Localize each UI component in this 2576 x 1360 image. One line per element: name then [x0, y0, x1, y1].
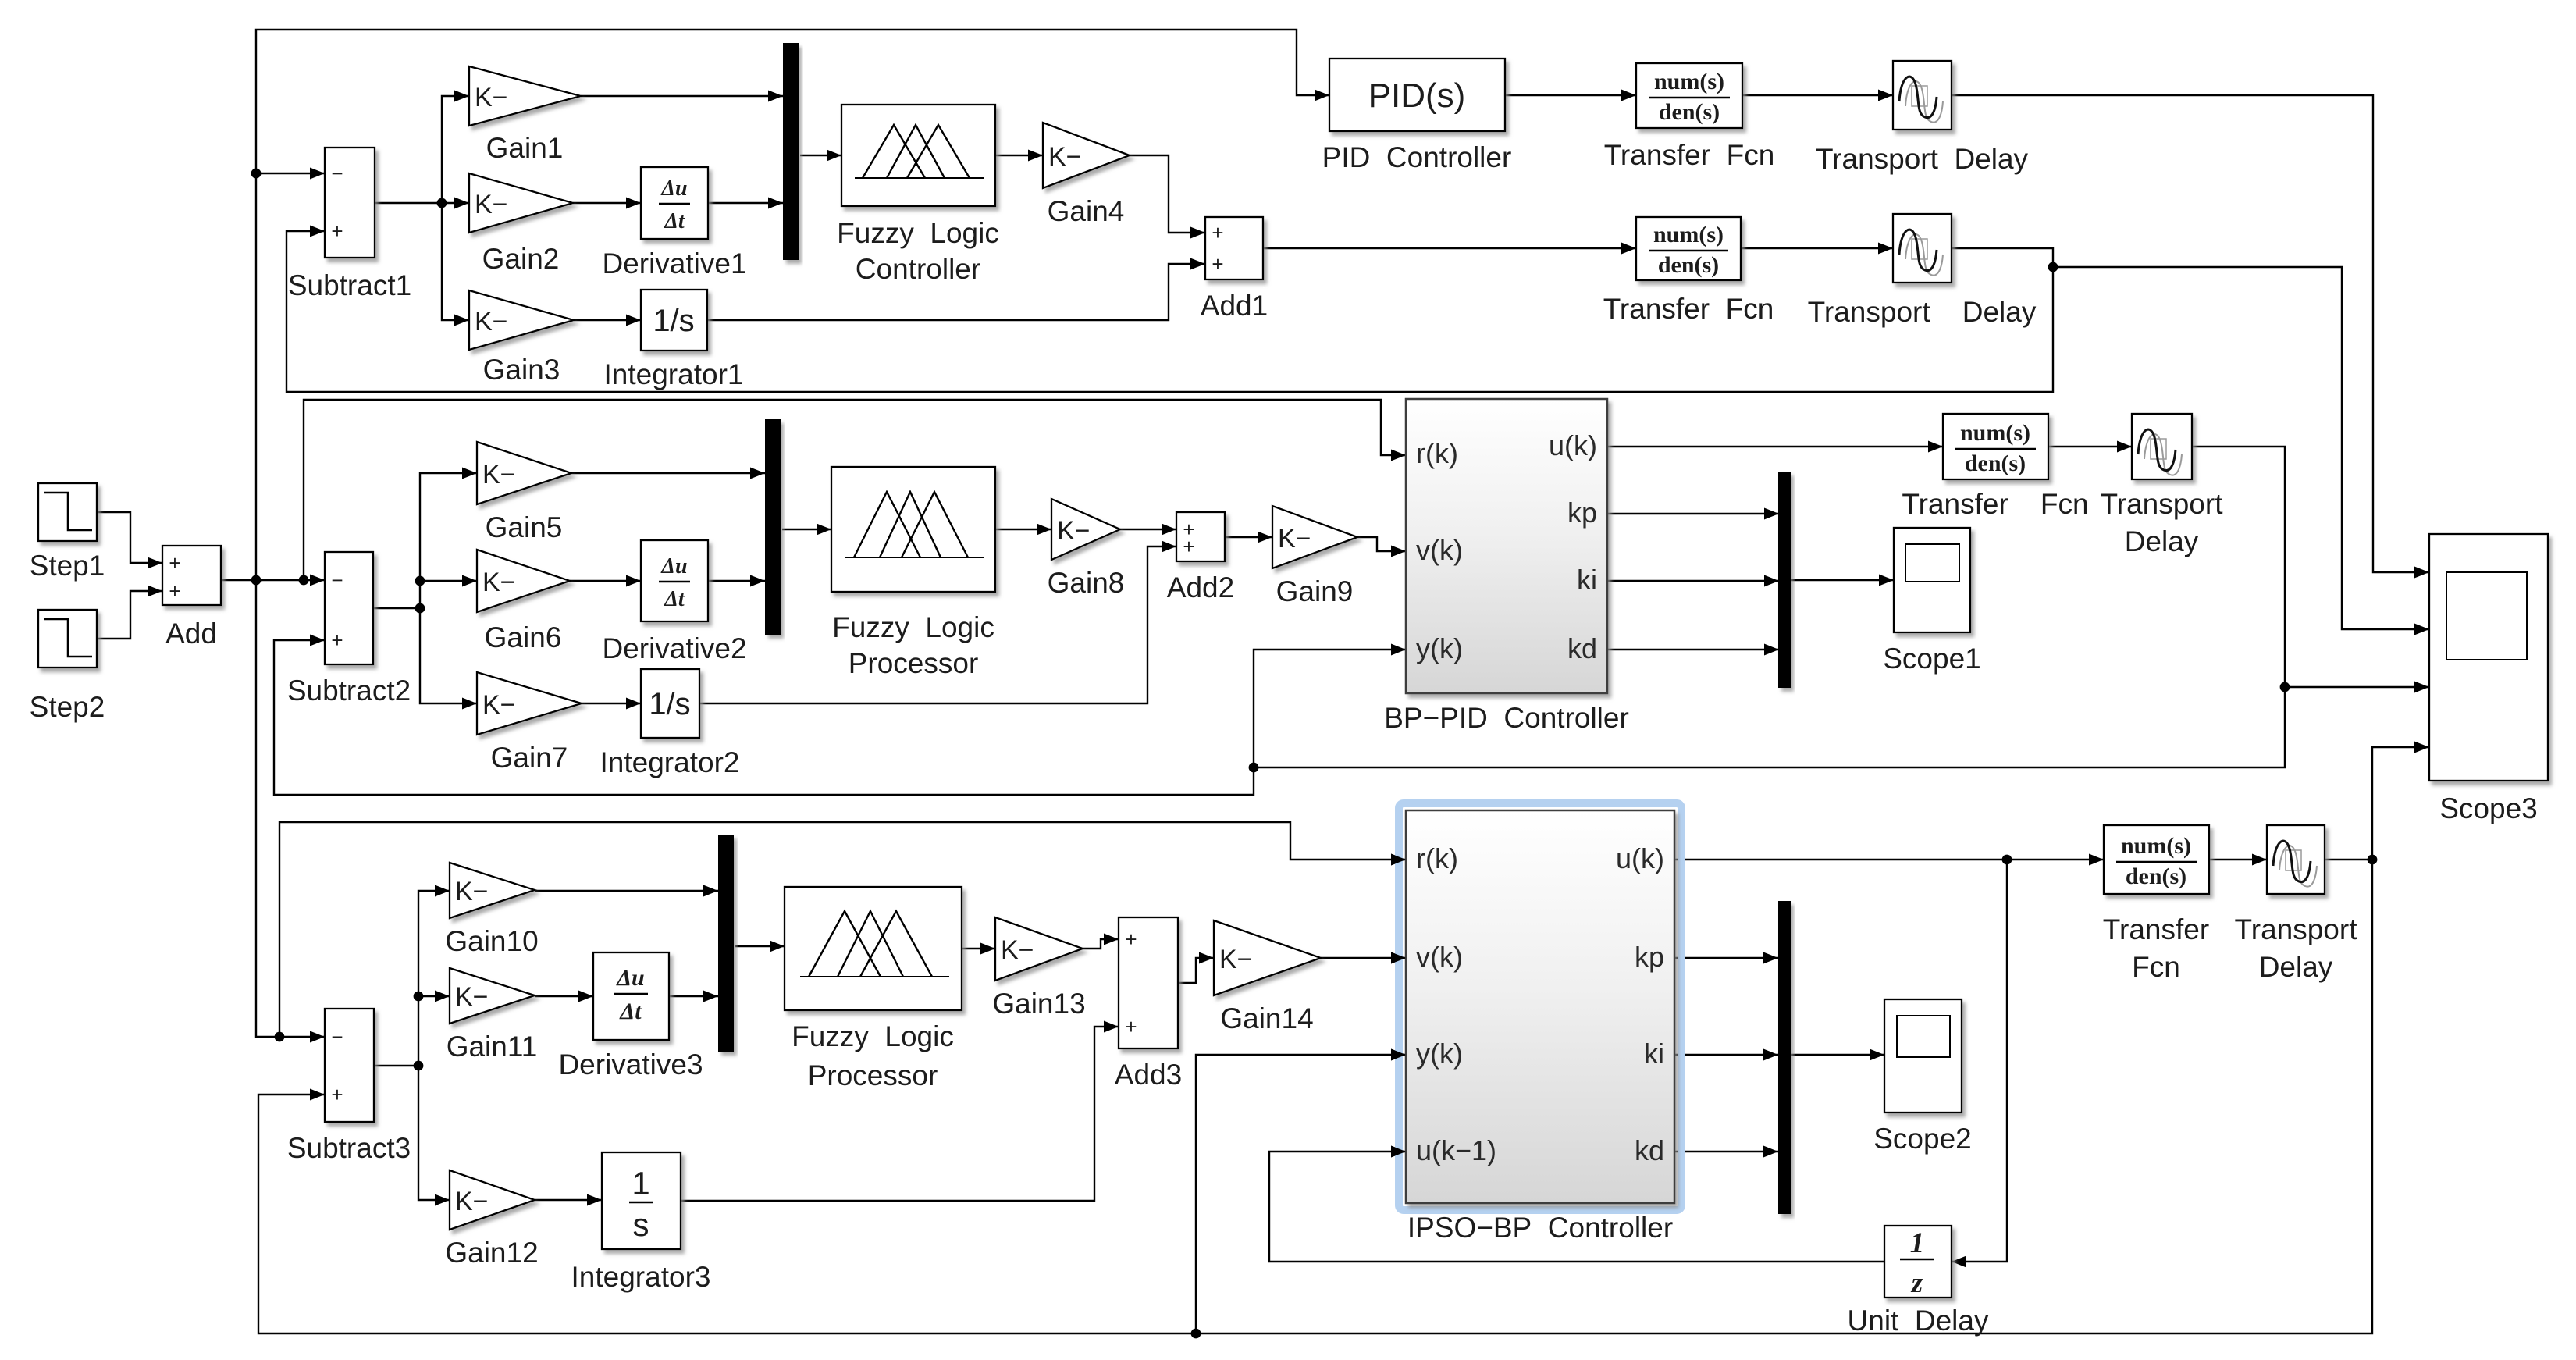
svg-text:+: + [1125, 1015, 1137, 1038]
svg-text:Delay: Delay [2125, 525, 2199, 557]
svg-text:Fuzzy Logic: Fuzzy Logic [832, 611, 994, 643]
svg-text:Delay: Delay [2259, 951, 2333, 983]
svg-text:u(k): u(k) [1549, 429, 1597, 461]
transport delay block Transport Delay1 [1816, 61, 2029, 175]
mux block Mux1 [783, 43, 799, 260]
wire: u(k) branch down to Unit Delay input [1952, 860, 2007, 1268]
gain block Gain3 [469, 290, 574, 386]
sum block Subtract3 [287, 1009, 411, 1164]
wire: branch up to Scope3 input4 [2372, 742, 2429, 860]
pid block PID Controller [1322, 59, 1512, 173]
svg-text:kd: kd [1635, 1134, 1664, 1166]
wire: Gain1 output to Mux1 [581, 91, 783, 102]
sum block Add1 [1201, 217, 1268, 322]
svg-text:Derivative1: Derivative1 [602, 247, 746, 279]
svg-text:Scope3: Scope3 [2439, 792, 2538, 824]
svg-text:Processor: Processor [849, 647, 979, 679]
wire: Transfer Fcn1 output to Transport Delay1 [1742, 90, 1893, 101]
wire: Fuzzy Logic Processor2 output to Gain13 [962, 943, 995, 955]
wire: Gain6 output to Derivative2 [570, 575, 641, 587]
wire: branch into Subtract1 minus input [251, 168, 325, 180]
mux block Mux5 [1778, 901, 1791, 1214]
svg-text:1/s: 1/s [649, 687, 690, 721]
step source Step1 [30, 483, 105, 582]
svg-text:K−: K− [1048, 142, 1082, 172]
svg-text:Derivative3: Derivative3 [558, 1048, 703, 1081]
svg-text:1: 1 [632, 1165, 649, 1202]
svg-text:u(k): u(k) [1616, 842, 1664, 874]
wire: reference down-loop to Subtract3 minus input [256, 580, 325, 1043]
wire: Subtract2 output branch node [373, 603, 425, 614]
wire: IPSO-BP kd output to Mux5 [1674, 1146, 1778, 1158]
derivative block Derivative3 [558, 952, 703, 1081]
wire: Gain13 output to Add3 first input [1083, 934, 1119, 949]
gain block Gain14 [1214, 920, 1321, 1034]
wire: Derivative2 output to Mux2 [708, 575, 765, 587]
wire: Integrator1 output to Add1 second input [707, 258, 1205, 321]
wire: Gain14 output to IPSO-BP v(k) input [1321, 952, 1406, 964]
wire: Transport Delay1 output to Scope3 input1 [1952, 95, 2429, 579]
wire: Add output reference into Subtract1 minus-line junctions [221, 575, 325, 586]
svg-text:Gain11: Gain11 [447, 1031, 538, 1063]
svg-text:Step1: Step1 [30, 550, 105, 582]
svg-text:Subtract1: Subtract1 [288, 269, 411, 301]
wire: Mux4 output to Fuzzy Logic Processor2 [735, 941, 785, 952]
wire: Add3 output to Gain14 [1178, 952, 1214, 984]
wire: Transport Delay3 branch to Scope3 input3 [2285, 682, 2429, 693]
svg-text:+: + [331, 219, 343, 243]
svg-text:s: s [633, 1206, 649, 1243]
wire: Gain4 output to Add1 first input [1130, 155, 1205, 239]
wire: branch down to Gain7 input [420, 608, 477, 710]
fuzzy logic block Fuzzy Logic Controller [837, 105, 999, 285]
wire: reference branch to BP-PID r(k) input [304, 400, 1406, 580]
svg-text:Integrator1: Integrator1 [604, 358, 744, 390]
svg-text:den(s): den(s) [2126, 863, 2186, 889]
wire: branch up to Gain1 input [442, 91, 469, 204]
svg-text:−: − [331, 568, 343, 592]
wire: Add2 output to Gain9 [1225, 532, 1272, 543]
wire: Mux1 output to Fuzzy Logic Controller [800, 150, 841, 162]
subsystem block IPSO-BP Controller [1399, 803, 1681, 1244]
mux block Mux4 [718, 835, 734, 1052]
wire: BP-PID kp output to Mux3 [1607, 508, 1779, 520]
svg-text:Gain2: Gain2 [482, 243, 560, 275]
svg-text:Fcn: Fcn [2132, 951, 2180, 983]
svg-text:den(s): den(s) [1658, 252, 1719, 278]
svg-text:K−: K− [475, 83, 508, 112]
svg-text:Add2: Add2 [1167, 571, 1234, 603]
transport delay block Transport Delay4 [2235, 825, 2358, 983]
wire: Fuzzy Logic Processor output to Gain8 [995, 524, 1051, 536]
svg-text:y(k): y(k) [1416, 1038, 1463, 1070]
svg-text:+: + [169, 579, 180, 603]
svg-text:num(s): num(s) [1654, 69, 1724, 94]
wire: Gain9 output to BP-PID v(k) input [1357, 537, 1406, 557]
sum block Subtract2 [287, 552, 411, 707]
fuzzy logic block Fuzzy Logic Processor [831, 467, 995, 679]
wire: reference branch to IPSO-BP r(k) input [279, 822, 1406, 1037]
svg-text:kp: kp [1567, 497, 1597, 529]
svg-text:num(s): num(s) [1653, 222, 1724, 247]
svg-text:Δu: Δu [616, 965, 645, 991]
gain block Gain8 [1048, 499, 1125, 599]
svg-text:1/s: 1/s [653, 304, 694, 338]
svg-text:y(k): y(k) [1416, 632, 1463, 664]
wire: branch up to Gain10 input [414, 885, 450, 1066]
svg-text:K−: K− [455, 877, 489, 906]
wire: Step2 output to Add second input [97, 586, 162, 639]
svg-text:BP−PID Controller: BP−PID Controller [1384, 702, 1629, 734]
svg-text:Transfer Fcn: Transfer Fcn [1603, 293, 1774, 325]
transfer fcn block Transfer Fcn1 [1604, 63, 1775, 171]
transfer fcn block Transfer Fcn2 [1603, 217, 1774, 325]
svg-text:Transfer: Transfer [2103, 913, 2209, 945]
gain block Gain13 [992, 917, 1085, 1020]
svg-text:den(s): den(s) [1659, 99, 1720, 125]
wire: Gain11 output to Derivative3 [535, 991, 593, 1002]
wire: branch up to Gain5 input [420, 468, 477, 609]
svg-text:Gain12: Gain12 [445, 1237, 538, 1269]
svg-text:Gain13: Gain13 [992, 988, 1085, 1020]
transfer fcn block Transfer Fcn3 [1902, 414, 2088, 520]
wire: Transport Delay2 feedback to Subtract1 plus input [286, 226, 2058, 393]
gain block Gain12 [445, 1170, 538, 1269]
svg-text:Gain6: Gain6 [485, 621, 562, 653]
svg-text:Fuzzy Logic: Fuzzy Logic [837, 217, 999, 249]
svg-text:Transfer Fcn: Transfer Fcn [1902, 488, 2088, 520]
svg-text:Transport: Transport [2235, 913, 2358, 945]
wire: Add1 output to Transfer Fcn2 [1263, 243, 1636, 255]
mux block Mux3 [1778, 472, 1791, 688]
wire: Transfer Fcn3 output to Transport Delay3 [2048, 441, 2132, 453]
wire: Step1 output to Add first input [97, 512, 162, 569]
svg-text:Unit Delay: Unit Delay [1848, 1305, 1989, 1337]
wire: Unit Delay output to IPSO-BP u(k-1) input [1269, 1146, 1884, 1262]
svg-text:K−: K− [482, 460, 516, 490]
derivative block Derivative1 [602, 167, 746, 279]
sum block Add2 [1167, 512, 1234, 603]
svg-text:Δu: Δu [660, 554, 687, 579]
svg-text:v(k): v(k) [1416, 941, 1463, 973]
svg-text:ki: ki [1644, 1038, 1664, 1070]
wire: Integrator3 output to Add3 second input [681, 1021, 1119, 1202]
svg-text:Gain5: Gain5 [486, 511, 563, 543]
svg-text:num(s): num(s) [1960, 420, 2030, 446]
svg-text:Gain3: Gain3 [483, 354, 560, 386]
svg-text:Gain9: Gain9 [1276, 575, 1354, 607]
svg-text:K−: K− [1219, 945, 1253, 974]
svg-text:IPSO−BP Controller: IPSO−BP Controller [1407, 1212, 1673, 1244]
fuzzy logic block Fuzzy Logic Processor2 [785, 887, 962, 1091]
scope block Scope3 [2429, 534, 2548, 824]
svg-text:v(k): v(k) [1416, 534, 1463, 566]
wire: branch down to Gain12 input [418, 1066, 450, 1206]
wire: Gain8 output to Add2 first input [1120, 524, 1176, 536]
svg-text:1: 1 [1910, 1227, 1925, 1259]
svg-text:Subtract3: Subtract3 [287, 1132, 411, 1164]
integrator block Integrator2 [600, 669, 740, 778]
wire: branch to Gain11 input [418, 991, 450, 1002]
arrowheads into IPSO-BP inputs [1391, 854, 1406, 1158]
wire: Transport Delay2 branch to Scope3 input2 [2053, 267, 2429, 635]
sum block Add3 [1115, 917, 1182, 1091]
wire: Subtract3 output branch node [374, 1061, 423, 1071]
svg-text:Derivative2: Derivative2 [602, 632, 746, 664]
svg-text:+: + [1212, 252, 1223, 276]
svg-text:Subtract2: Subtract2 [287, 675, 411, 707]
gain block Gain9 [1272, 506, 1357, 607]
svg-text:+: + [1212, 221, 1223, 244]
wire: Gain12 output to Integrator3 [535, 1194, 602, 1206]
svg-text:Δt: Δt [664, 209, 685, 233]
transport delay block Transport Delay2 [1808, 214, 2037, 328]
svg-text:+: + [1125, 927, 1137, 951]
wire: Derivative3 output to Mux4 [669, 991, 718, 1002]
wire: Derivative1 output to Mux1 [708, 198, 783, 209]
svg-text:Δt: Δt [664, 587, 685, 611]
wire: Gain3 output to Integrator1 [574, 315, 641, 326]
svg-text:Δu: Δu [660, 176, 687, 201]
wire: feedback branch to BP-PID y(k) input [1254, 644, 1406, 768]
svg-text:num(s): num(s) [2121, 833, 2191, 859]
gain block Gain2 [469, 173, 573, 275]
sum block Add [162, 546, 221, 650]
gain block Gain5 [477, 442, 571, 543]
wire: BP-PID kd output to Mux3 [1607, 644, 1779, 656]
svg-text:K−: K− [1001, 935, 1034, 965]
unit delay block Unit Delay [1848, 1226, 1989, 1337]
svg-text:PID(s): PID(s) [1368, 77, 1466, 115]
wire: BP-PID u(k) output to Transfer Fcn3 [1607, 441, 1943, 453]
svg-text:K−: K− [475, 190, 508, 219]
svg-text:PID Controller: PID Controller [1322, 141, 1512, 173]
svg-text:den(s): den(s) [1965, 450, 2026, 476]
svg-text:Add3: Add3 [1115, 1059, 1182, 1091]
transport delay block Transport Delay3 [2101, 414, 2224, 557]
wire: feedback jog to Subtract2 plus input [274, 635, 1254, 796]
svg-text:Add: Add [165, 618, 217, 650]
svg-text:r(k): r(k) [1416, 437, 1458, 469]
svg-text:+: + [169, 551, 180, 575]
svg-text:kp: kp [1635, 941, 1664, 973]
svg-text:Gain7: Gain7 [491, 742, 568, 774]
svg-text:K−: K− [1057, 516, 1091, 546]
svg-text:Gain10: Gain10 [445, 925, 538, 957]
wire: Gain7 output to Integrator2 [582, 698, 641, 710]
svg-text:Transport: Transport [2101, 488, 2224, 520]
wire: Integrator2 output to Add2 second input [699, 541, 1176, 704]
sum block Subtract1 [288, 148, 411, 301]
wire: bottom feedback loop to Subtract3 plus input [258, 860, 2372, 1338]
wire: IPSO-BP ki output to Mux5 [1674, 1049, 1778, 1061]
wire: reference up-loop to PID Controller input [256, 30, 1329, 580]
svg-text:K−: K− [482, 568, 516, 597]
subsystem block BP-PID Controller [1384, 399, 1629, 734]
svg-text:u(k−1): u(k−1) [1416, 1134, 1496, 1166]
svg-text:Transport Delay: Transport Delay [1816, 143, 2029, 175]
wire: branch to Gain6 input [415, 575, 477, 587]
wire: Gain5 output to Mux2 [571, 468, 765, 479]
gain block Gain7 [477, 672, 582, 774]
svg-text:Gain14: Gain14 [1220, 1002, 1313, 1034]
gain block Gain11 [447, 968, 538, 1063]
svg-text:Controller: Controller [856, 253, 980, 285]
gain block Gain1 [469, 66, 581, 164]
svg-text:Scope1: Scope1 [1883, 643, 1981, 675]
svg-text:Processor: Processor [808, 1059, 938, 1091]
gain block Gain6 [477, 550, 570, 653]
svg-text:Integrator2: Integrator2 [600, 746, 740, 778]
svg-text:Add1: Add1 [1201, 290, 1268, 322]
derivative block Derivative2 [602, 540, 746, 664]
svg-text:K−: K− [475, 307, 508, 336]
svg-text:r(k): r(k) [1416, 842, 1458, 874]
svg-text:K−: K− [455, 1187, 489, 1216]
svg-text:ki: ki [1577, 564, 1597, 596]
wire: Transport Delay4 output junction [2325, 855, 2377, 865]
svg-text:Step2: Step2 [30, 691, 105, 723]
svg-text:+: + [331, 1083, 343, 1106]
scope block Scope1 [1883, 528, 1981, 675]
wire: Mux3 output to Scope1 [1791, 575, 1894, 586]
wire: PID Controller output to Transfer Fcn1 [1505, 90, 1636, 101]
wire: IPSO-BP u(k) output to Transfer Fcn4 [1674, 854, 2104, 866]
svg-text:kd: kd [1567, 632, 1597, 664]
svg-text:−: − [331, 1025, 343, 1048]
wire: Gain2 output to Derivative1 [573, 198, 641, 209]
svg-text:Scope2: Scope2 [1873, 1123, 1972, 1155]
wire: Subtract1 output to Gain2 with branch node [375, 198, 469, 209]
svg-text:+: + [1183, 535, 1194, 558]
wire: Mux2 output to Fuzzy Logic Processor [782, 524, 831, 536]
wire: Mux5 output to Scope2 [1791, 1049, 1884, 1061]
svg-text:Δt: Δt [619, 999, 642, 1024]
svg-text:+: + [331, 628, 343, 652]
wire: Transfer Fcn2 output to Transport Delay2 [1741, 243, 1893, 255]
svg-text:z: z [1910, 1267, 1923, 1299]
svg-text:−: − [331, 162, 343, 185]
svg-text:Gain1: Gain1 [486, 132, 564, 164]
wire: feedback branch to IPSO-BP y(k) input [1196, 1049, 1406, 1334]
step source Step2 [30, 610, 105, 723]
svg-text:Gain4: Gain4 [1048, 195, 1125, 227]
wire: branch down to Gain3 input [442, 203, 469, 326]
svg-text:Gain8: Gain8 [1048, 567, 1125, 599]
wire: Transport Delay3 feedback toward Subtract2 [1249, 447, 2290, 772]
wire: BP-PID ki output to Mux3 [1607, 575, 1779, 587]
integrator block Integrator1 [604, 290, 744, 390]
scope block Scope2 [1873, 999, 1972, 1155]
svg-text:Transfer Fcn: Transfer Fcn [1604, 139, 1775, 171]
wire: Fuzzy Logic Controller output to Gain4 [995, 150, 1043, 162]
svg-text:K−: K− [1278, 524, 1311, 554]
wire: Gain10 output to Mux4 [535, 885, 718, 897]
svg-text:Integrator3: Integrator3 [571, 1261, 711, 1293]
svg-text:K−: K− [482, 690, 516, 720]
transfer fcn block Transfer Fcn4 [2103, 825, 2209, 983]
svg-text:K−: K− [455, 982, 489, 1012]
gain block Gain10 [445, 863, 538, 957]
svg-text:Transport Delay: Transport Delay [1808, 296, 2037, 328]
mux block Mux2 [765, 419, 781, 635]
gain block Gain4 [1043, 123, 1130, 227]
svg-text:Fuzzy Logic: Fuzzy Logic [792, 1020, 954, 1052]
wire: IPSO-BP kp output to Mux5 [1674, 952, 1778, 964]
wire: Transfer Fcn4 output to Transport Delay4 [2209, 854, 2267, 866]
integrator block Integrator3 [571, 1152, 711, 1293]
